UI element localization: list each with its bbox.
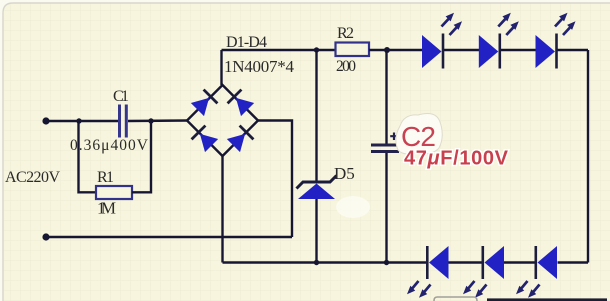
LED 3 top string [536,13,576,69]
wire: neutral rail [46,236,292,238]
wire: R1 left branch [79,121,97,192]
diode D2 upper-right [228,90,255,117]
node: C2 bottom junction [384,260,389,265]
diode D1 upper-left [190,90,217,117]
svg-text:R1: R1 [97,169,114,186]
wire: live terminal to C1 left plate [46,120,118,122]
svg-text:R2: R2 [337,25,354,42]
wire: bottom LED5-LED6 link [504,261,537,263]
node: DC+ junction [384,47,390,53]
watermark remnant bottom dark bar [487,298,607,301]
LED 2 top string [479,13,519,69]
wire: C1 right plate to bridge left corner [128,119,188,122]
node: AC live terminal [42,117,49,124]
wire: LED1-LED2 link [444,49,479,51]
wire: top rail to right riser [558,49,589,51]
svg-text:0.36μ400V: 0.36μ400V [70,137,149,154]
svg-text:1N4007*4: 1N4007*4 [224,57,295,76]
resistor R1 [96,186,132,199]
watermark remnant near D5 [336,196,370,218]
node: D5 bottom junction [314,260,319,265]
node: junction C1/R1 right [148,118,153,123]
svg-text:1M: 1M [97,199,116,218]
LED 4 bottom string [407,246,449,298]
capacitor C1 [120,105,127,138]
node: AC neutral terminal [42,233,49,240]
wire: R1 right branch [132,121,151,192]
wire: LED2-LED3 link [501,49,536,51]
wire: C2 lower branch [385,153,387,263]
LED 1 top string [422,13,462,69]
diode D4 lower-right [226,126,253,153]
wire: D5 lower branch [315,199,317,263]
wire: right riser [587,50,589,263]
zener diode D5 [297,176,337,200]
wire: R2 to LED node [369,49,422,51]
capacitor C2 [371,133,399,152]
watermark blob behind C2 label [396,114,442,154]
LED 6 bottom string [516,246,557,298]
wire: DC- rail [223,261,428,263]
svg-text:D5: D5 [334,164,355,183]
wire: DC- drop from bridge [221,156,223,263]
svg-text:AC220V: AC220V [5,169,60,186]
svg-text:C1: C1 [113,88,129,105]
node: junction C1/R1 left [76,118,81,123]
wire: D5 upper branch [315,50,317,182]
wire: right riser to bottom LED3 [558,261,589,263]
wire: positive rail to R2 [222,49,336,51]
diode D3 lower-left [192,126,219,153]
wire: C2 upper branch [385,50,387,144]
svg-text:47μF/100V: 47μF/100V [404,148,509,170]
wire: neutral riser to bridge right corner [258,121,292,238]
LED 5 bottom string [463,246,504,298]
bridge rectifier D1-D4 [187,85,258,156]
wire: bridge top riser [220,50,222,85]
resistor R2 [336,43,370,57]
svg-text:D1-D4: D1-D4 [226,34,267,51]
svg-text:200: 200 [336,58,356,75]
watermark remnant bottom grey tab [434,297,477,301]
wire: bottom LED4-LED5 link [449,261,485,263]
node: D5 tap junction [314,47,319,52]
wire: bridge diamond [187,85,258,156]
